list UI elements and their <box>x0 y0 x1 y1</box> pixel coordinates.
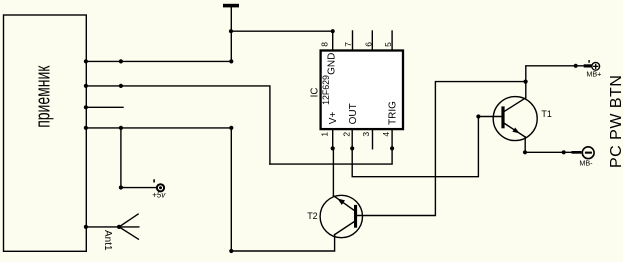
transistor T2 circle <box>320 195 362 237</box>
svg-text:Ant1: Ant1 <box>102 230 113 251</box>
node MB+ wire dot <box>574 64 578 68</box>
transistor T1 circle <box>493 97 537 141</box>
pin 6 stub <box>371 31 373 51</box>
wire pin2 to T1 base <box>352 117 478 177</box>
node T1 base <box>476 114 480 118</box>
node line2 dots <box>84 84 88 88</box>
svg-text:2: 2 <box>342 132 352 137</box>
node pin dots <box>331 146 335 150</box>
svg-text:1: 1 <box>319 132 329 137</box>
node +5v corner <box>119 185 123 189</box>
svg-text:T2: T2 <box>307 211 318 221</box>
transistor T1 emitter arrow <box>512 128 519 134</box>
wire to pin4 <box>270 148 392 164</box>
wire receiver line4 <box>86 127 231 129</box>
wire receiver line2 <box>86 86 270 164</box>
transistor T1 emitter diagonal <box>505 124 526 138</box>
svg-text:приемник: приемник <box>31 65 54 127</box>
pin 4 stub <box>391 129 393 148</box>
connector MB+ symbol <box>584 60 600 70</box>
connector MB- symbol <box>572 147 595 159</box>
ground <box>223 4 239 8</box>
svg-text:TRIG: TRIG <box>387 101 398 125</box>
wire +5v horizontal <box>121 187 156 189</box>
node line1 dots <box>84 59 88 63</box>
svg-text:4: 4 <box>381 132 391 137</box>
svg-text:PC PW BTN: PC PW BTN <box>608 75 623 168</box>
antenna Ant1 <box>119 214 138 227</box>
svg-text:8: 8 <box>319 42 329 47</box>
node T1 emitter corner <box>523 150 527 154</box>
svg-text:V+: V+ <box>328 112 339 125</box>
transistor T1 bar <box>501 106 504 128</box>
IC body <box>321 51 403 130</box>
transistor T2 collector diagonal <box>335 221 355 234</box>
wire T1 emitter to MB- <box>525 137 571 152</box>
svg-text:12F629: 12F629 <box>321 75 331 105</box>
power +5v symbol <box>153 179 164 191</box>
svg-text:7: 7 <box>343 42 353 47</box>
wire +5v vertical <box>120 128 122 188</box>
svg-text:OUT: OUT <box>348 103 359 124</box>
wire T1 collector to MB+ <box>526 66 584 98</box>
wire T2 base to node <box>357 82 526 216</box>
wire T1 base <box>478 116 501 118</box>
svg-text:+5v: +5v <box>152 190 166 199</box>
transistor T2 bar <box>354 205 357 228</box>
pin 1 stub <box>332 129 334 148</box>
wire T2 collector run <box>231 128 334 251</box>
pin 5 stub <box>391 31 393 51</box>
node T2/T1 collector junction <box>524 80 528 84</box>
node gnd junction <box>229 29 233 33</box>
pin 7 stub <box>352 31 354 51</box>
transistor T2 emitter diagonal <box>334 196 355 211</box>
svg-text:IC: IC <box>309 88 320 98</box>
wire ground vertical <box>230 7 232 61</box>
node line3 dot <box>84 105 88 109</box>
wire receiver line1 <box>86 60 231 62</box>
svg-text:5: 5 <box>383 42 393 47</box>
pin 3 stub <box>372 129 374 149</box>
svg-text:T1: T1 <box>541 109 552 119</box>
node line4 dots <box>84 126 88 130</box>
pin 2 stub <box>351 129 353 148</box>
node T2 collector corner <box>229 249 233 253</box>
transistor T2 emitter arrow <box>337 198 345 205</box>
receiver box U-приемник <box>4 15 87 251</box>
wire ground to pin8 <box>231 30 332 32</box>
wire receiver line3 stub <box>86 106 123 108</box>
pin 8 stub <box>332 31 334 50</box>
svg-text:3: 3 <box>361 132 371 137</box>
wire antenna <box>86 226 119 228</box>
transistor T1 collector diagonal <box>505 98 526 111</box>
svg-text:GND: GND <box>327 53 338 75</box>
svg-text:6: 6 <box>363 42 373 47</box>
node antenna dots <box>84 225 88 229</box>
svg-text:MB+: MB+ <box>586 69 601 78</box>
wire pin1 to T2 <box>332 148 334 196</box>
svg-text:MB-: MB- <box>579 158 593 167</box>
